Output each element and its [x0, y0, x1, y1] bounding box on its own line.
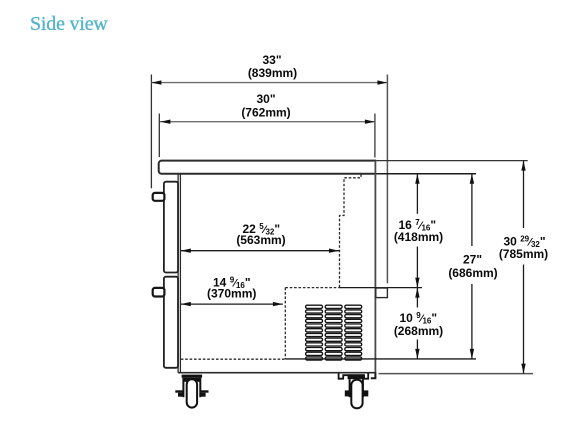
svg-text:(418mm): (418mm) [394, 230, 443, 244]
cabinet bottom edge [178, 372, 376, 374]
louver column 1 [306, 305, 323, 360]
hidden interior floor (dashed) [181, 358, 285, 360]
hidden compressor step line (dashed) [285, 287, 339, 289]
svg-text:(785mm): (785mm) [499, 247, 548, 261]
caster 2 (rear) [339, 374, 369, 409]
svg-text:(686mm): (686mm) [448, 266, 497, 280]
svg-text:27": 27" [463, 253, 482, 267]
svg-text:(839mm): (839mm) [248, 66, 297, 80]
svg-text:(762mm): (762mm) [241, 105, 290, 119]
caster 1 (front) [175, 375, 208, 408]
louver column 3 [345, 305, 362, 360]
svg-text:30": 30" [256, 92, 275, 106]
horizontal extension: countertop top to 30 29/32 dim [376, 160, 528, 162]
cabinet back wall [374, 161, 376, 374]
svg-text:(563mm): (563mm) [236, 233, 285, 247]
16 7/16in vertical dimension [416, 174, 418, 214]
rear protrusion box [376, 288, 388, 298]
compressor step visible line + extension to vertical dims [340, 287, 423, 289]
handle 2 [153, 288, 165, 297]
hidden compressor front wall (dashed) [284, 288, 286, 360]
horizontal extension: vent bottom to 27 dim [285, 358, 476, 360]
louver column 2 [325, 305, 342, 360]
handle 1 [153, 193, 165, 201]
33in dimension: extension lines [150, 75, 152, 189]
drawer front 2 [164, 277, 178, 368]
horizontal extension: countertop bottom to 27 dim [376, 173, 476, 175]
10 9/16in vertical dimension [416, 288, 418, 308]
33in dimension line with arrows [151, 82, 387, 84]
title: Side view [30, 14, 108, 34]
22 5/32in dimension line with arrows [181, 250, 339, 252]
27in vertical dimension [471, 174, 473, 246]
30 29/32in vertical dimension [523, 161, 525, 228]
horizontal extension: cabinet bottom to 30 29/32 dim [379, 373, 534, 375]
louver grille columns [306, 305, 362, 360]
svg-text:33": 33" [262, 53, 281, 67]
svg-text:(268mm): (268mm) [394, 324, 443, 338]
countertop slab [159, 161, 377, 174]
rear bottom foot [371, 373, 376, 379]
30in dimension line with arrows [160, 121, 375, 123]
drawer front 1 [164, 182, 178, 273]
cabinet front wall (double line) [177, 174, 179, 373]
hidden interior back wall (dashed stepped) [340, 174, 362, 287]
svg-text:(370mm): (370mm) [207, 287, 256, 301]
30in dimension: extension lines [158, 114, 160, 158]
14 9/16in dimension line with arrows [181, 303, 283, 305]
